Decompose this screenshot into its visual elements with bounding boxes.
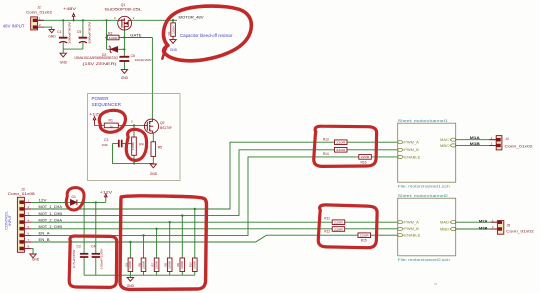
svg-text:R9: R9 bbox=[176, 263, 180, 267]
svg-text:R12: R12 bbox=[324, 229, 330, 233]
svg-text:MAC: MAC bbox=[440, 138, 450, 142]
svg-text:C3: C3 bbox=[104, 138, 108, 142]
svg-text:File: motorchannel1.sch: File: motorchannel1.sch bbox=[398, 183, 450, 188]
svg-text:GND: GND bbox=[170, 48, 178, 52]
svg-text:SuD50P08-25L: SuD50P08-25L bbox=[104, 8, 142, 12]
svg-text:100K: 100K bbox=[169, 260, 172, 269]
svg-text:100K: 100K bbox=[129, 260, 132, 269]
svg-text:GATE: GATE bbox=[130, 34, 142, 38]
svg-text:100K: 100K bbox=[131, 142, 135, 150]
svg-text:R11: R11 bbox=[324, 217, 330, 221]
svg-text:MOTOR_48V: MOTOR_48V bbox=[179, 15, 204, 20]
svg-text:220R: 220R bbox=[334, 227, 343, 231]
svg-text:MAD: MAD bbox=[440, 221, 450, 225]
svg-text:MBC: MBC bbox=[440, 144, 450, 148]
svg-text:J2: J2 bbox=[37, 6, 41, 10]
svg-text:Sheet: motorchannel1: Sheet: motorchannel1 bbox=[398, 118, 448, 123]
svg-text:R1: R1 bbox=[109, 119, 113, 123]
svg-text:File: motorchannel2.sch: File: motorchannel2.sch bbox=[398, 257, 450, 262]
svg-text:48V INPUT: 48V INPUT bbox=[3, 23, 25, 28]
svg-text:Capacitor bleed-off resistor: Capacitor bleed-off resistor bbox=[180, 33, 233, 38]
svg-text:SEQUENCER: SEQUENCER bbox=[92, 102, 122, 108]
svg-text:R15: R15 bbox=[361, 238, 367, 242]
svg-text:100nF|100V: 100nF|100V bbox=[135, 58, 152, 62]
svg-text:Sheet: motorchannel2: Sheet: motorchannel2 bbox=[398, 193, 448, 198]
svg-text:100K: 100K bbox=[171, 25, 175, 34]
svg-text:C5: C5 bbox=[77, 30, 81, 34]
svg-text:12V: 12V bbox=[39, 199, 48, 203]
svg-text:EN_A: EN_A bbox=[39, 232, 51, 236]
svg-text:GND: GND bbox=[32, 258, 40, 262]
svg-text:220R: 220R bbox=[334, 221, 343, 225]
svg-text:M1A: M1A bbox=[470, 136, 480, 140]
svg-text:GND: GND bbox=[48, 35, 56, 39]
svg-text:PWM_B: PWM_B bbox=[404, 148, 419, 152]
svg-text:220R: 220R bbox=[336, 148, 345, 152]
svg-text:R8: R8 bbox=[164, 263, 168, 267]
svg-text:R6: R6 bbox=[137, 263, 141, 267]
svg-text:M1B: M1B bbox=[470, 142, 480, 146]
svg-text:GND: GND bbox=[150, 172, 158, 176]
svg-text:PWM_B: PWM_B bbox=[404, 227, 419, 231]
svg-text:220R: 220R bbox=[336, 141, 345, 145]
svg-text:100nF/100V: 100nF/100V bbox=[100, 248, 104, 269]
svg-text:GND: GND bbox=[121, 76, 129, 80]
svg-text:ENABLE: ENABLE bbox=[404, 234, 421, 238]
svg-text:100uF/63V: 100uF/63V bbox=[68, 22, 72, 44]
svg-text:MOT_2_CHA: MOT_2_CHA bbox=[39, 218, 64, 222]
svg-text:C1: C1 bbox=[57, 30, 61, 34]
svg-text:PWM_A: PWM_A bbox=[404, 221, 419, 225]
svg-text:BS170F: BS170F bbox=[160, 126, 172, 130]
svg-text:R2: R2 bbox=[108, 31, 112, 35]
svg-text:MBD: MBD bbox=[440, 227, 450, 231]
svg-text:220R: 220R bbox=[360, 234, 369, 238]
svg-text:+48V: +48V bbox=[63, 7, 77, 11]
svg-text:J3: J3 bbox=[21, 188, 25, 192]
svg-text:100K: 100K bbox=[194, 260, 197, 269]
svg-text:MOT_2_CHB: MOT_2_CHB bbox=[39, 225, 63, 229]
svg-text:220R: 220R bbox=[361, 155, 370, 159]
svg-text:Q1: Q1 bbox=[121, 3, 126, 7]
svg-text:D1: D1 bbox=[72, 195, 76, 199]
svg-text:R7: R7 bbox=[151, 263, 155, 267]
svg-text:R4: R4 bbox=[139, 142, 143, 146]
svg-text:R14: R14 bbox=[323, 152, 329, 156]
svg-text:+12V: +12V bbox=[100, 190, 114, 194]
svg-text:1SMA15CA/5SMB5929BT3G: 1SMA15CA/5SMB5929BT3G bbox=[74, 56, 119, 60]
svg-text:1k: 1k bbox=[110, 125, 114, 129]
svg-text:R3: R3 bbox=[167, 31, 171, 35]
svg-text:100K: 100K bbox=[181, 260, 184, 269]
svg-text:PWM_A: PWM_A bbox=[404, 141, 419, 145]
svg-text:GND: GND bbox=[127, 284, 135, 288]
svg-text:Conn_01x02: Conn_01x02 bbox=[506, 230, 534, 234]
svg-text:100R: 100R bbox=[109, 36, 118, 40]
svg-text:MOT_1_CHA: MOT_1_CHA bbox=[39, 205, 64, 209]
svg-text:Conn_01x02: Conn_01x02 bbox=[505, 145, 533, 149]
svg-text:4.7uF/25V: 4.7uF/25V bbox=[72, 249, 76, 268]
svg-text:Conn_01x08: Conn_01x08 bbox=[8, 192, 35, 196]
svg-text:Q2: Q2 bbox=[160, 121, 165, 125]
svg-text:100K: 100K bbox=[142, 260, 145, 269]
svg-text:100n: 100n bbox=[102, 143, 109, 147]
svg-text:MOT_1_CHB: MOT_1_CHB bbox=[39, 212, 63, 216]
svg-text:J5: J5 bbox=[507, 223, 511, 227]
svg-text:R3: R3 bbox=[124, 263, 128, 267]
svg-text:EN_B: EN_B bbox=[39, 238, 50, 242]
svg-text:POWER: POWER bbox=[92, 96, 109, 102]
svg-text:Conn_01x02: Conn_01x02 bbox=[26, 10, 52, 14]
svg-text:100K: 100K bbox=[155, 260, 158, 269]
svg-text:R5: R5 bbox=[158, 145, 162, 149]
svg-text:GND: GND bbox=[60, 60, 68, 64]
svg-text:M2A: M2A bbox=[479, 220, 488, 224]
svg-text:(15V ZENER): (15V ZENER) bbox=[83, 62, 117, 66]
svg-text:J4: J4 bbox=[505, 137, 509, 141]
svg-text:C4: C4 bbox=[91, 245, 95, 249]
svg-text:R13: R13 bbox=[323, 138, 329, 142]
svg-text:ENABLE: ENABLE bbox=[404, 155, 421, 159]
svg-text:M2B: M2B bbox=[479, 226, 488, 230]
svg-text:100uF/63V: 100uF/63V bbox=[87, 22, 91, 44]
svg-text:R10: R10 bbox=[189, 262, 193, 267]
svg-text:C2: C2 bbox=[77, 245, 81, 249]
svg-text:INPUT: INPUT bbox=[8, 214, 12, 225]
svg-text:R16: R16 bbox=[361, 160, 367, 164]
